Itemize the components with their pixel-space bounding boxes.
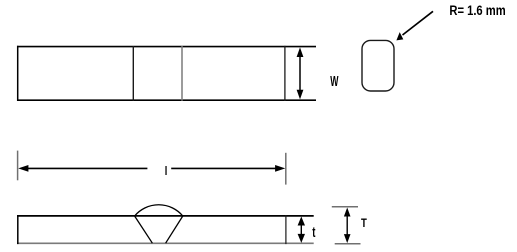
dimension arrow W bbox=[297, 47, 304, 99]
weld bead cap arc bbox=[135, 205, 183, 216]
leader arrow to corner radius bbox=[396, 11, 433, 40]
side view plate: left edge bbox=[17, 215, 19, 244]
dimension line l: right segment bbox=[171, 167, 279, 169]
dimension line l: left segment bbox=[25, 167, 147, 169]
dimension T: top extension tick bbox=[332, 206, 358, 208]
svg-text:l: l bbox=[165, 166, 168, 178]
top view plate: right edge bbox=[284, 46, 286, 101]
svg-text:R= 1.6 mm: R= 1.6 mm bbox=[449, 3, 505, 18]
weld bead left fusion line bbox=[135, 216, 153, 243]
side view plate: bottom edge (extends right as t extension line) bbox=[17, 242, 314, 244]
dimension l: right arrowhead bbox=[275, 165, 285, 172]
dimension l: right extension tick bbox=[285, 153, 287, 185]
svg-text:W: W bbox=[330, 72, 339, 89]
rounded corner detail rectangle bbox=[362, 40, 394, 91]
weld zone boundary line 1 bbox=[132, 46, 134, 101]
side view plate: right edge bbox=[285, 215, 287, 244]
weld bead right fusion line bbox=[166, 216, 183, 243]
dimension l: left arrowhead bbox=[18, 165, 28, 172]
dimension arrow t bbox=[298, 217, 305, 243]
top view plate: left edge bbox=[17, 46, 19, 101]
top view plate: top edge (extends right as W extension line) bbox=[17, 46, 316, 48]
svg-text:T: T bbox=[361, 217, 367, 230]
dimension arrow T bbox=[344, 208, 351, 244]
dimension l: left extension tick bbox=[17, 151, 19, 181]
side view plate: top edge (extends right as t extension line) bbox=[17, 215, 314, 217]
dimension T: bottom extension tick bbox=[335, 243, 361, 245]
weld zone boundary line 2 bbox=[181, 46, 183, 101]
top view plate: bottom edge (extends right as W extension line) bbox=[17, 99, 316, 101]
